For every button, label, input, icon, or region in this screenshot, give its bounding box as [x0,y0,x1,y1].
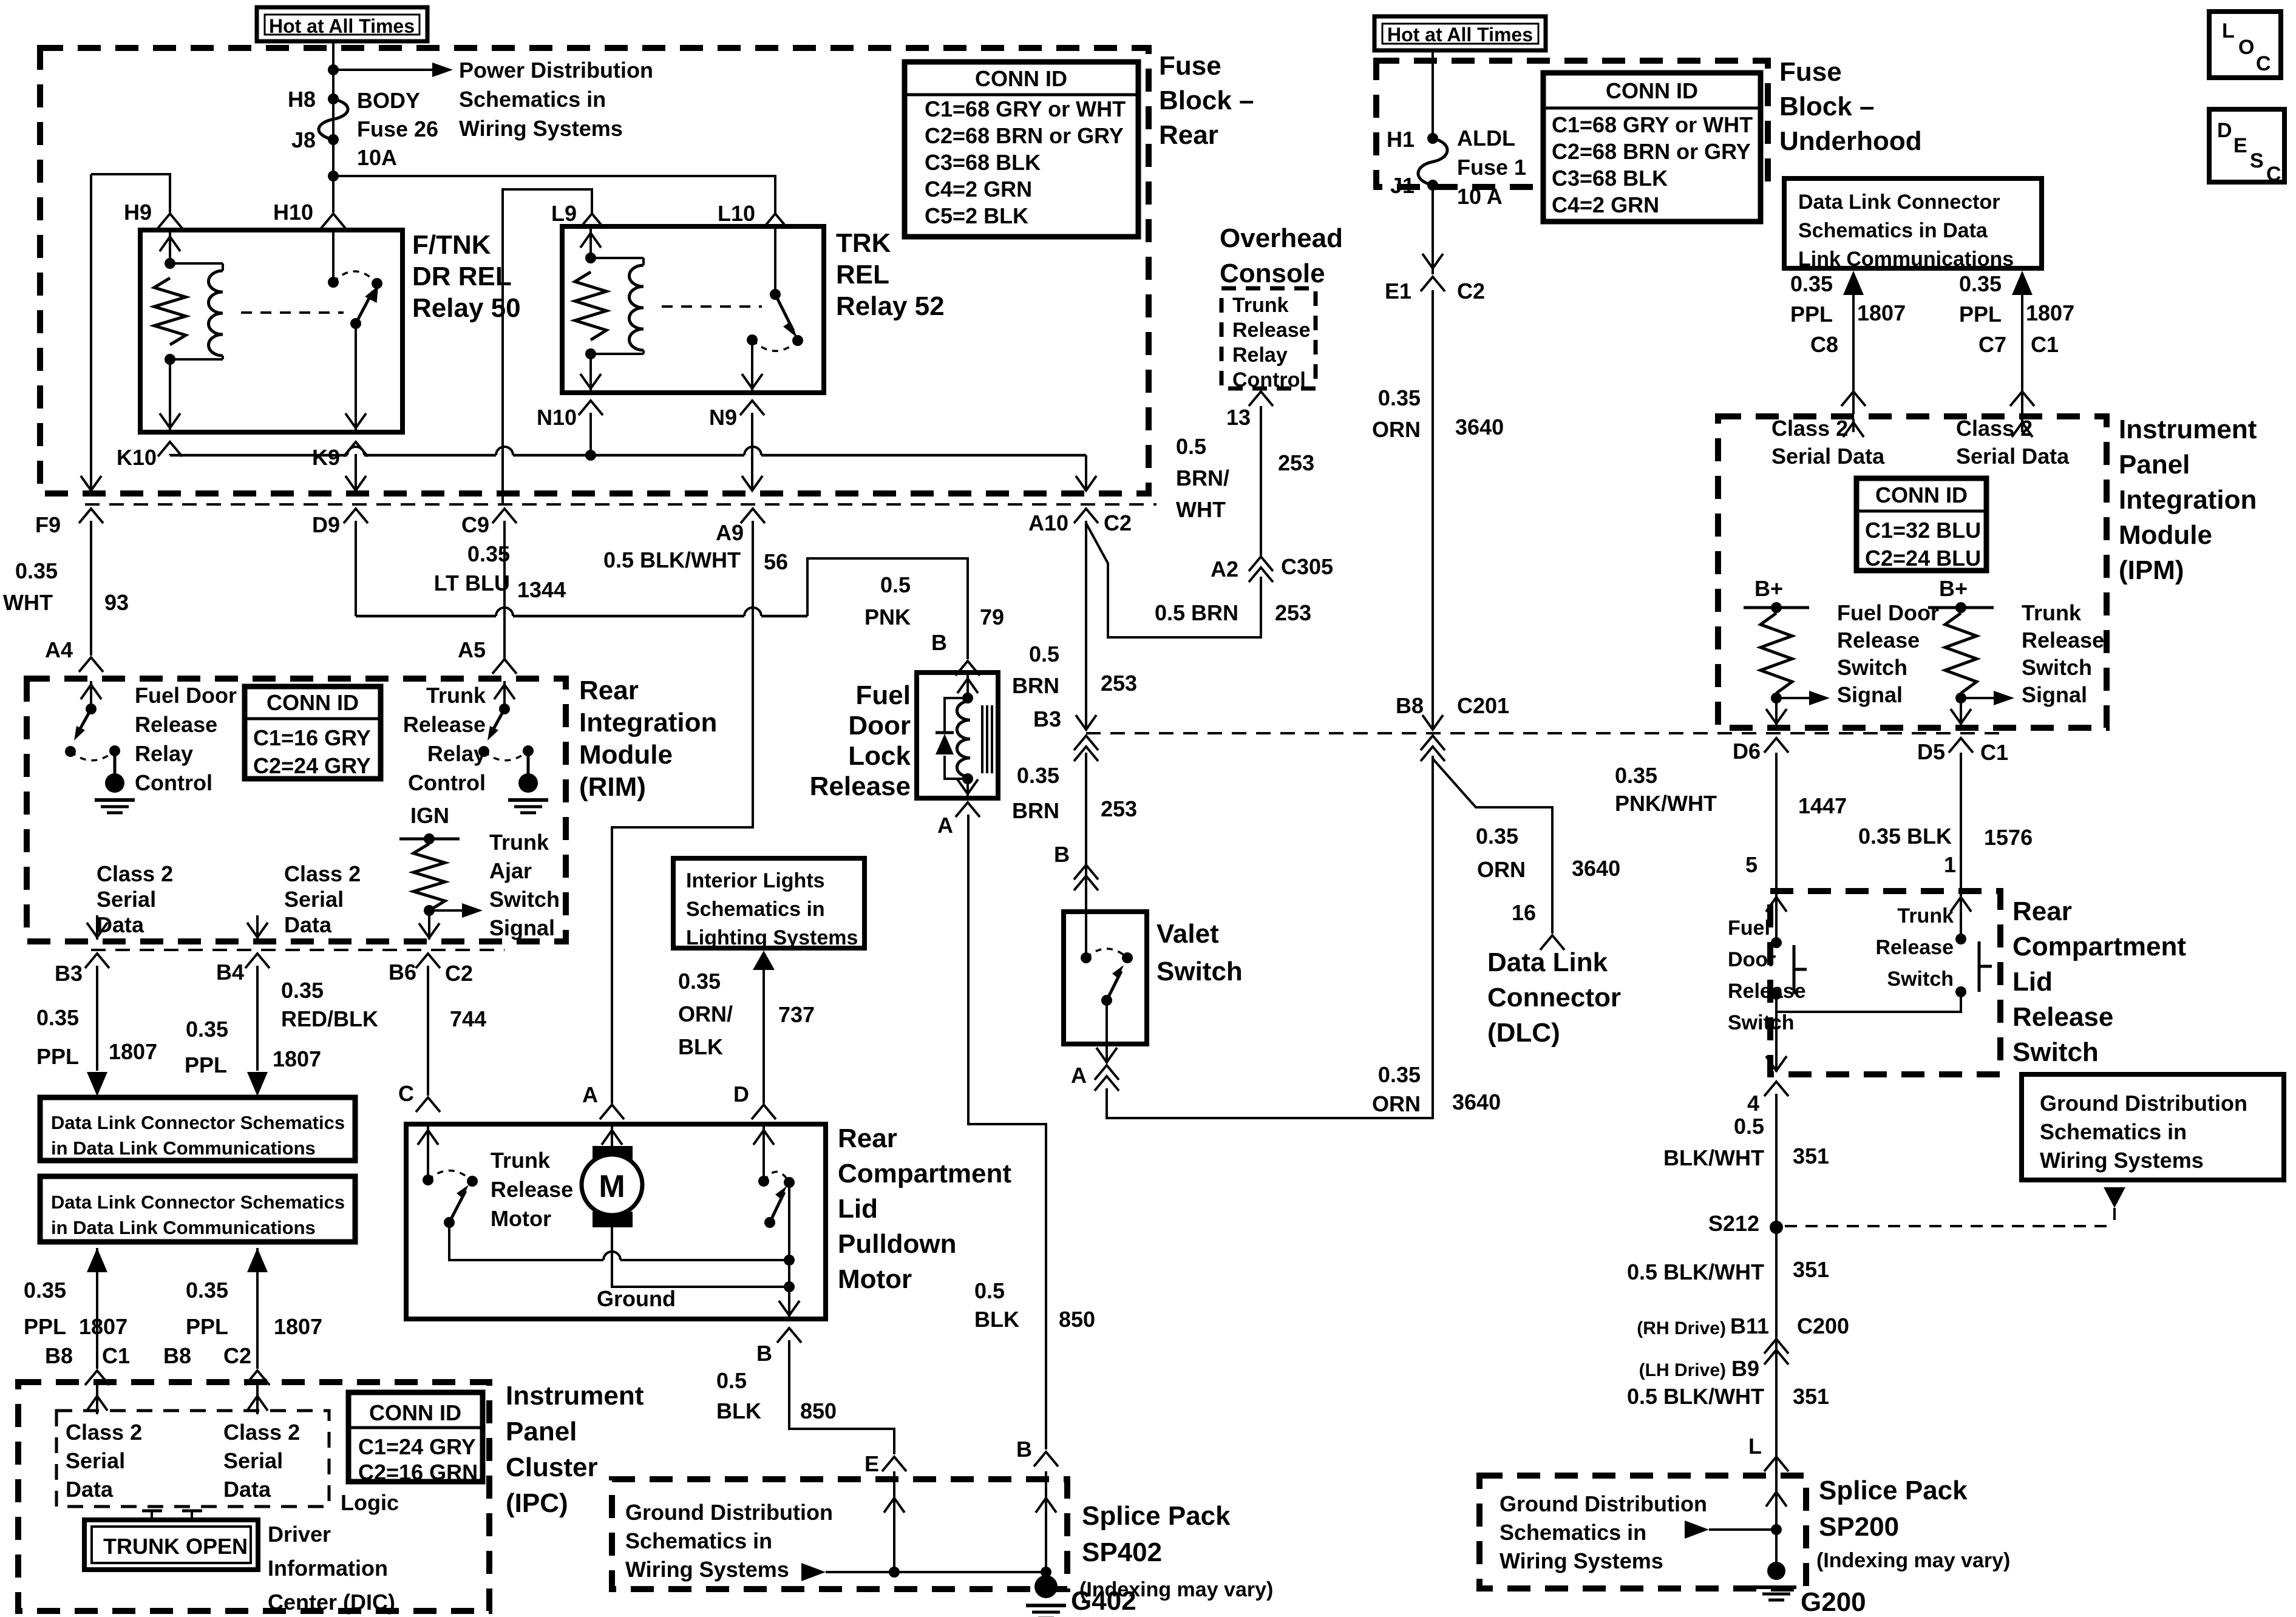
relay50 coil top node [165,258,175,269]
connector F9 [79,509,103,523]
logic stem 1 [151,1511,153,1521]
svg-text:D5: D5 [1917,739,1945,764]
fuel door release relay ground [114,751,117,777]
connector L9 [580,214,604,228]
svg-text:Connector: Connector [1487,983,1621,1012]
svg-text:4: 4 [1747,1091,1759,1116]
svg-text:Integration: Integration [579,708,717,737]
svg-text:0.5: 0.5 [880,572,911,597]
connector B8 C1 [85,1371,109,1385]
svg-text:C1: C1 [1980,740,2008,765]
fuse ALDL Fuse 1 10A [1418,138,1447,185]
svg-text:1807: 1807 [109,1039,157,1064]
pulldown exit wire B [788,1182,790,1317]
IGN feed bar [399,838,460,841]
svg-text:Lock: Lock [848,741,911,771]
svg-text:D9: D9 [312,512,340,537]
svg-text:351: 351 [1793,1144,1829,1168]
svg-text:Release: Release [1728,980,1806,1003]
CONN ID table (underhood) [1543,73,1761,222]
svg-text:Release: Release [810,771,911,801]
svg-text:Data Link: Data Link [1487,947,1608,977]
svg-text:PPL: PPL [36,1044,79,1069]
node J8 [328,134,339,145]
connector A fuel lock [956,802,980,817]
connector B8 C2 [245,1371,270,1385]
svg-text:Switch: Switch [1728,1011,1795,1034]
ref box Data Link Connector Schematics 1 [40,1097,355,1161]
svg-text:Rear: Rear [1159,120,1218,150]
svg-text:Data Link Connector Schematics: Data Link Connector Schematics [51,1112,345,1133]
ref box Data Link Connector Schematics (top right) [1784,178,2042,268]
svg-text:Class 2: Class 2 [66,1420,142,1445]
svg-text:Class 2: Class 2 [1771,416,1848,441]
power label box 'Hot at All Times' (left) [257,7,427,41]
svg-text:Schematics in: Schematics in [625,1528,772,1553]
trunk release relay control stem contact [523,745,534,756]
fuel door release switch contact bottom [1771,989,1782,1000]
RIM A4 entry arrow [90,681,92,709]
trunk release switch node [1955,693,1966,703]
svg-text:Panel: Panel [506,1417,577,1446]
dashed box Fuse Block - Rear [40,48,1149,493]
svg-text:B: B [1054,842,1070,867]
svg-text:744: 744 [450,1006,486,1031]
dashed box Trunk Release Relay Control (overhead console) [1221,288,1316,388]
svg-text:Wiring Systems: Wiring Systems [625,1557,789,1582]
node switch bus 2 [784,1281,795,1292]
wire F9 arrow [81,476,101,490]
trunk release switch contact top [1955,934,1966,944]
svg-text:Block –: Block – [1779,92,1875,121]
trunk release motor switch throw [467,1176,478,1187]
svg-text:0.35: 0.35 [1378,1062,1421,1087]
svg-text:Interior Lights: Interior Lights [686,869,825,892]
SP200 feed arrow [1685,1520,1709,1539]
fuel door release switch contact top [1771,937,1782,948]
svg-text:Panel: Panel [2119,450,2190,480]
SP200 entry arrow [1766,1492,1787,1507]
trunk release switch bar [1978,941,1981,992]
svg-text:Serial: Serial [97,887,156,912]
svg-text:Overhead: Overhead [1220,223,1343,253]
svg-text:Release: Release [135,712,217,737]
svg-text:C2=24 GRY: C2=24 GRY [253,753,371,778]
svg-text:O: O [2238,36,2254,59]
valet pivot [1101,995,1112,1006]
valet input wire [1085,912,1087,958]
svg-text:K9: K9 [312,445,340,470]
component box Fuel Door Lock Release [917,673,998,798]
svg-text:56: 56 [764,549,788,574]
wire N9 down through bus [751,413,753,489]
rear lid exit arrow [1775,1012,1778,1072]
svg-text:0.5 BRN: 0.5 BRN [1155,600,1238,625]
svg-text:A: A [582,1082,598,1107]
svg-text:CONN ID: CONN ID [1606,78,1698,103]
svg-text:M: M [599,1169,625,1204]
svg-text:0.35: 0.35 [1615,763,1657,788]
svg-text:H8: H8 [288,87,316,112]
dashed box splice pack SP402 [612,1479,1067,1589]
CONN ID table (IPC) [348,1392,483,1482]
svg-text:351: 351 [1793,1257,1829,1282]
svg-text:Lid: Lid [2012,967,2053,997]
svg-text:253: 253 [1101,796,1137,821]
fuel door release relay control arm [78,709,91,733]
svg-text:Rear: Rear [2012,897,2072,926]
connector B (motor bottom) [777,1328,801,1343]
svg-text:0.5: 0.5 [1734,1114,1764,1139]
wire H9 stub [91,174,170,212]
svg-text:Power Distribution: Power Distribution [459,58,653,83]
SP402 E entry [893,1471,895,1572]
svg-text:N9: N9 [709,405,737,430]
valet contact in [1081,952,1092,963]
svg-text:Data: Data [223,1477,271,1502]
svg-text:IGN: IGN [410,803,449,828]
svg-text:Schematics in: Schematics in [686,898,825,921]
svg-text:Compartment: Compartment [838,1159,1011,1188]
connector A (motor top) [600,1105,624,1119]
connector B (SP402) [1034,1452,1058,1466]
svg-text:BLK: BLK [716,1398,761,1423]
motor C entry arrow [427,1127,429,1180]
svg-text:Ground Distribution: Ground Distribution [1500,1491,1707,1516]
ref box Interior Lights Schematics [673,858,864,948]
svg-text:0.5 BLK/WHT: 0.5 BLK/WHT [1627,1259,1764,1284]
svg-text:Data: Data [97,912,144,937]
svg-text:Fuse 26: Fuse 26 [357,117,438,141]
svg-text:C4=2 GRN: C4=2 GRN [1552,192,1659,217]
svg-text:Fuel Door: Fuel Door [1837,600,1939,625]
LOC box [2209,12,2281,78]
svg-text:S212: S212 [1708,1211,1759,1236]
RIM B3 exit wire [96,915,98,940]
svg-text:B3: B3 [55,961,83,986]
svg-text:850: 850 [800,1398,837,1423]
svg-text:C9: C9 [461,512,489,537]
svg-text:Release: Release [2012,1002,2113,1032]
connector A9 [741,509,765,523]
motor ground wire [612,1227,789,1287]
trunk release motor switch contact C [423,1175,433,1185]
relay50 switch exit wire [355,324,357,430]
wire B3 down [96,966,98,1071]
svg-text:SP200: SP200 [1819,1512,1899,1542]
trunk release motor switch pivot [444,1217,455,1228]
svg-text:Compartment: Compartment [2012,932,2186,961]
fuel door release switch bar tick [1794,968,1807,971]
relay52 coil exit wire [589,354,592,390]
svg-text:Control: Control [1232,368,1306,392]
svg-text:C1=16 GRY: C1=16 GRY [253,725,371,750]
relay52 switch throw contact [792,335,803,346]
svg-text:ORN/: ORN/ [678,1002,733,1026]
svg-text:C305: C305 [1281,554,1333,579]
svg-text:A9: A9 [716,520,744,545]
svg-text:1344: 1344 [517,577,566,602]
connector overhead console pin 13 [1249,392,1273,406]
relay52 coil top node [585,253,596,263]
svg-text:C1=68 GRY or WHT: C1=68 GRY or WHT [1552,112,1753,137]
svg-text:B3: B3 [1033,707,1061,731]
svg-text:3640: 3640 [1572,856,1620,881]
svg-text:Switch: Switch [1837,655,1907,680]
svg-text:0.35: 0.35 [281,978,324,1003]
svg-text:Block –: Block – [1159,86,1254,115]
svg-text:J1: J1 [1390,173,1415,198]
svg-text:Link Communications: Link Communications [1798,248,2014,271]
svg-text:Fuse: Fuse [1159,51,1221,81]
svg-text:Trunk: Trunk [426,683,486,708]
fuel door release relay control switch pivot [86,703,97,714]
svg-text:B+: B+ [1939,576,1968,601]
component box Valet Switch [1064,912,1147,1044]
svg-text:Ground Distribution: Ground Distribution [625,1500,833,1525]
wire E1 to B8 [1432,290,1434,728]
fuel lock diode [936,731,954,734]
svg-text:PPL: PPL [185,1053,227,1077]
svg-text:ORN: ORN [1372,417,1421,442]
svg-text:C201: C201 [1457,693,1509,718]
thin dashed connector line C201 [1086,732,2000,734]
connector H9 [158,214,182,228]
svg-text:BLK: BLK [678,1034,723,1059]
wire C7 up [2021,273,2023,414]
svg-text:C3=68 BLK: C3=68 BLK [925,150,1041,175]
relay52 coil top link [591,257,644,259]
svg-text:Ground: Ground [597,1286,676,1311]
svg-text:0.35: 0.35 [1959,271,2002,296]
interior lights wire 737 [763,970,765,1103]
svg-text:WHT: WHT [3,590,53,615]
wire J8 to L10 [333,176,775,214]
svg-text:L: L [1748,1434,1762,1459]
svg-text:1807: 1807 [1857,300,1906,325]
svg-text:(RH Drive): (RH Drive) [1637,1318,1726,1338]
connector C7 [2010,392,2034,406]
svg-text:3640: 3640 [1455,415,1504,439]
svg-text:PPL: PPL [24,1314,66,1339]
trunk ajar node [424,905,435,916]
pulldown switch dashed arc [764,1171,789,1182]
wire D6 down [1775,753,1778,889]
svg-text:Instrument: Instrument [2119,415,2257,444]
wire C8 up [1852,273,1855,414]
svg-text:Driver: Driver [268,1522,331,1547]
svg-text:1807: 1807 [274,1314,322,1339]
wire hot1 down [332,41,335,176]
thin dashed connector line (RIM C2 row) [91,949,504,951]
relay52 resistor R [575,272,606,340]
trunk ajar signal arrow [429,909,463,912]
fuel lock entry arrow [966,675,969,698]
svg-text:(IPC): (IPC) [506,1488,568,1518]
svg-text:F/TNK: F/TNK [412,230,491,260]
component box Rear Compartment Lid Pulldown Motor [406,1124,826,1319]
pulldown switch pivot [764,1217,775,1228]
node SP402 E [889,1567,900,1578]
relay50 switch arm [356,291,373,324]
svg-text:Release: Release [491,1177,573,1202]
fuel door release switch exit [1775,698,1778,725]
svg-text:(Indexing may vary): (Indexing may vary) [1816,1549,2010,1572]
pulldown switch arm [770,1192,784,1222]
svg-text:Data: Data [284,912,332,937]
svg-text:Information: Information [268,1556,388,1581]
svg-text:C2: C2 [223,1343,251,1368]
svg-text:BLK/WHT: BLK/WHT [1663,1145,1764,1170]
svg-text:C1=24 GRY: C1=24 GRY [358,1434,476,1459]
B+ bar trunk [1928,606,1994,609]
svg-text:Lighting Systems: Lighting Systems [686,926,858,949]
svg-text:Integration: Integration [2119,485,2257,515]
svg-text:Release: Release [1232,319,1311,342]
dashed box Instrument Panel Cluster IPC [18,1382,489,1611]
wire valet A to DLC [1107,756,1433,1118]
connector C9 [492,509,517,523]
svg-text:Relay: Relay [135,741,193,766]
svg-text:Schematics in: Schematics in [2040,1119,2187,1144]
relay52 coil bottom link [591,353,644,355]
valet dashed arc [1086,949,1127,958]
relay50 resistor R [154,278,186,345]
svg-text:TRK: TRK [836,228,891,258]
svg-text:Hot at All Times: Hot at All Times [269,15,415,37]
trunk release switch resistor [1945,613,1977,693]
relay52 switch arm [775,294,793,331]
svg-text:Ajar: Ajar [489,858,532,883]
trunk release motor switch arm [449,1191,466,1222]
svg-text:1576: 1576 [1984,825,2033,850]
svg-text:Splice Pack: Splice Pack [1819,1476,1968,1505]
svg-text:Signal: Signal [2022,682,2087,707]
svg-text:0.35: 0.35 [36,1005,79,1030]
svg-text:E1: E1 [1385,279,1411,303]
svg-text:Control: Control [408,770,486,795]
svg-text:BRN: BRN [1012,673,1059,698]
svg-text:Trunk: Trunk [1897,904,1954,927]
svg-text:L9: L9 [551,201,577,226]
relay box TRK REL Relay 52 [562,226,824,393]
B+ bar fuel [1744,606,1809,609]
svg-text:253: 253 [1101,671,1137,696]
svg-text:0.35: 0.35 [1017,763,1059,788]
fuel lock core [981,705,983,773]
svg-text:A: A [1071,1063,1087,1088]
trunk ajar resistor [413,844,445,910]
CONN ID table (fuse block rear) [905,62,1138,237]
svg-text:Data Link Connector: Data Link Connector [1798,191,2000,214]
valet arm [1107,971,1121,1000]
svg-text:0.35: 0.35 [1378,385,1421,410]
svg-text:Relay: Relay [427,741,486,766]
svg-text:5: 5 [1745,852,1758,877]
svg-text:B: B [1016,1437,1032,1462]
svg-text:Serial: Serial [66,1448,125,1473]
svg-text:C1=32 BLU: C1=32 BLU [1865,518,1981,543]
DESC box [2209,109,2284,182]
svg-text:G200: G200 [1801,1587,1866,1617]
fuel door release relay control dashed arc [70,751,115,761]
wire C305 up to overhead console [1260,406,1262,557]
svg-text:Center (DIC): Center (DIC) [268,1590,395,1615]
svg-text:C2=16 GRN: C2=16 GRN [358,1460,478,1485]
svg-text:B: B [931,630,947,655]
relay52 switch static contact [747,334,758,345]
relay52 switch common contact [770,289,781,300]
connector E1 C2 [1421,277,1445,291]
relay50 switch dashed arc [333,271,377,283]
trunk release motor switch dashed arc [428,1170,472,1181]
svg-text:TRUNK OPEN: TRUNK OPEN [103,1534,248,1559]
svg-text:C2: C2 [1104,510,1132,535]
power label box 'Hot at All Times' (right) [1374,16,1546,50]
wire B6 down to C [427,966,429,1096]
svg-text:Wiring Systems: Wiring Systems [1500,1548,1663,1573]
trunk release switch contact bottom [1955,986,1966,997]
wire D5 down [1960,753,1962,889]
relay50 coil entry arrow [169,232,171,263]
svg-text:Release: Release [1875,936,1954,959]
svg-text:H1: H1 [1387,127,1415,152]
svg-text:Schematics in: Schematics in [1500,1520,1646,1545]
wire rear lid to S212 [1775,1094,1778,1572]
fuel door release switch bar [1793,945,1796,994]
svg-text:Trunk: Trunk [1232,294,1289,317]
motor A entry arrow [611,1127,613,1146]
fuel lock diode branch [945,698,968,731]
svg-text:in Data Link Communications: in Data Link Communications [51,1137,316,1159]
dashed link to S212 [1785,1225,2114,1227]
svg-text:Class 2: Class 2 [97,861,173,886]
svg-text:L: L [2222,19,2235,42]
svg-text:B+: B+ [1754,576,1783,601]
svg-text:0.5: 0.5 [1029,642,1059,666]
SP402 B entry [1045,1471,1047,1572]
wire C9-A5 (LT BLU) [503,521,506,659]
connector A5 [492,659,517,674]
dashed box splice pack SP200 [1479,1476,1806,1588]
svg-text:Wiring Systems: Wiring Systems [2040,1148,2204,1173]
svg-text:Relay: Relay [1232,344,1288,367]
fuel lock top node [962,693,973,703]
svg-text:ORN: ORN [1477,857,1526,882]
svg-text:B11: B11 [1730,1314,1769,1338]
SP402 feed arrow [801,1563,826,1581]
fuel door release relay control stem contact [109,745,120,756]
svg-text:C2: C2 [1457,279,1485,303]
rear lid trunk entry arrow [1960,893,1962,939]
node H1 [1427,133,1438,144]
fuel door release switch node [1771,693,1782,703]
svg-text:D6: D6 [1733,739,1761,764]
RIM B4 exit wire [256,915,259,940]
connector DLC 16 [1540,935,1564,950]
svg-text:Splice Pack: Splice Pack [1082,1501,1231,1531]
svg-text:Pulldown: Pulldown [838,1229,957,1259]
ground G200 [1775,1530,1778,1568]
connector A10 [1074,509,1098,523]
wire A9 to motor A [612,521,753,1103]
svg-text:Ground Distribution: Ground Distribution [2040,1091,2247,1116]
svg-text:C3=68 BLK: C3=68 BLK [1552,166,1668,191]
svg-text:CONN ID: CONN ID [975,66,1067,91]
relay50 coil bottom node [165,354,175,365]
svg-text:REL: REL [836,260,889,290]
wire A10 to C305 [1086,523,1261,637]
